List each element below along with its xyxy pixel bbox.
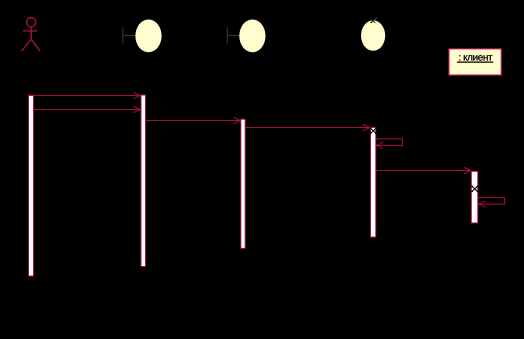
control icon ellipse [361,20,385,50]
activation bar 3 [241,119,245,248]
self message on bar 5 [478,198,505,208]
message arrow 3 (bar2 to bar3) [146,117,240,123]
object box :klient [449,49,501,75]
actor (stick figure) [22,18,40,51]
activation bar 5 [471,171,478,223]
message arrow 2 (bar1 to bar2) [34,106,140,112]
message arrow 1 (bar1 to bar2) [29,92,140,98]
boundary icon 1 ellipse [135,20,161,53]
boundary icon 1 stem [123,28,136,44]
activation bar 2 [141,95,146,267]
control icon arrow stub [371,17,378,23]
object label underline [457,61,493,63]
message arrow 4 (bar3 to bar4) [246,124,370,130]
self message on bar 4 [376,139,403,149]
object label :klient [459,55,492,60]
activation bar 4 [371,127,376,237]
boundary icon 2 ellipse [239,20,265,53]
destroy X on bar 5 [471,186,478,191]
activation bar 1 (actor lifeline) [29,95,34,276]
boundary icon 2 stem [227,28,240,44]
message arrow 5 (bar4 to bar5) [376,167,471,173]
destroy X on bar 4 [370,128,377,133]
